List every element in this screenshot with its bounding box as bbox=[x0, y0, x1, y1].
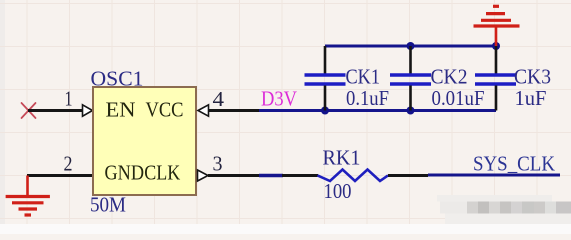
svg-text:CK2: CK2 bbox=[431, 65, 468, 89]
wire D3V bottom rail bbox=[259, 109, 496, 112]
svg-text:D3V: D3V bbox=[261, 87, 297, 111]
junction dot CK2 top bbox=[407, 42, 415, 50]
capacitor CK1 bbox=[305, 46, 346, 111]
svg-text:CK3: CK3 bbox=[514, 65, 551, 89]
svg-text:0.1uF: 0.1uF bbox=[346, 86, 389, 110]
svg-text:2: 2 bbox=[64, 152, 73, 176]
pin 1 wire bbox=[28, 109, 83, 112]
svg-text:CK1: CK1 bbox=[346, 65, 381, 89]
capacitor CK2 bbox=[390, 46, 431, 111]
pin 3 lead bbox=[208, 174, 260, 177]
wire RK1 to SYS_CLK bbox=[428, 174, 560, 177]
svg-text:1uF: 1uF bbox=[515, 86, 547, 110]
pin 4 input arrow bbox=[198, 105, 209, 116]
junction dot CK3 top bbox=[492, 42, 500, 50]
svg-text:OSC1: OSC1 bbox=[91, 67, 144, 91]
pin 1 input arrow bbox=[83, 105, 93, 116]
junction dot CK2 bottom bbox=[407, 107, 415, 115]
svg-text:3: 3 bbox=[213, 152, 223, 176]
pin 4 lead bbox=[209, 109, 261, 112]
svg-text:50M: 50M bbox=[90, 193, 126, 217]
svg-text:SYS_CLK: SYS_CLK bbox=[473, 152, 555, 176]
svg-text:RK1: RK1 bbox=[323, 145, 361, 169]
svg-text:100: 100 bbox=[324, 179, 352, 203]
junction dot CK1 bottom bbox=[321, 107, 329, 115]
pin 2 wire bbox=[27, 174, 92, 177]
pin 3 output arrow bbox=[198, 170, 209, 181]
resistor RK1 bbox=[282, 170, 428, 182]
ground symbol GND bbox=[6, 176, 50, 216]
svg-text:0.01uF: 0.01uF bbox=[432, 86, 485, 110]
oscillator OSC1 body bbox=[93, 87, 196, 195]
power ground symbol (top) bbox=[474, 6, 520, 46]
no-ERC marker X on pin 1 bbox=[22, 103, 36, 118]
wire pin3 to RK1 bbox=[259, 174, 283, 177]
capacitor CK3 bbox=[475, 46, 516, 111]
svg-text:CLK: CLK bbox=[144, 161, 180, 185]
wire top rail bbox=[325, 45, 496, 48]
svg-text:EN: EN bbox=[106, 98, 136, 122]
svg-text:1: 1 bbox=[65, 87, 73, 111]
svg-text:GND: GND bbox=[105, 161, 145, 185]
svg-text:4: 4 bbox=[213, 87, 225, 111]
svg-text:VCC: VCC bbox=[146, 98, 184, 122]
